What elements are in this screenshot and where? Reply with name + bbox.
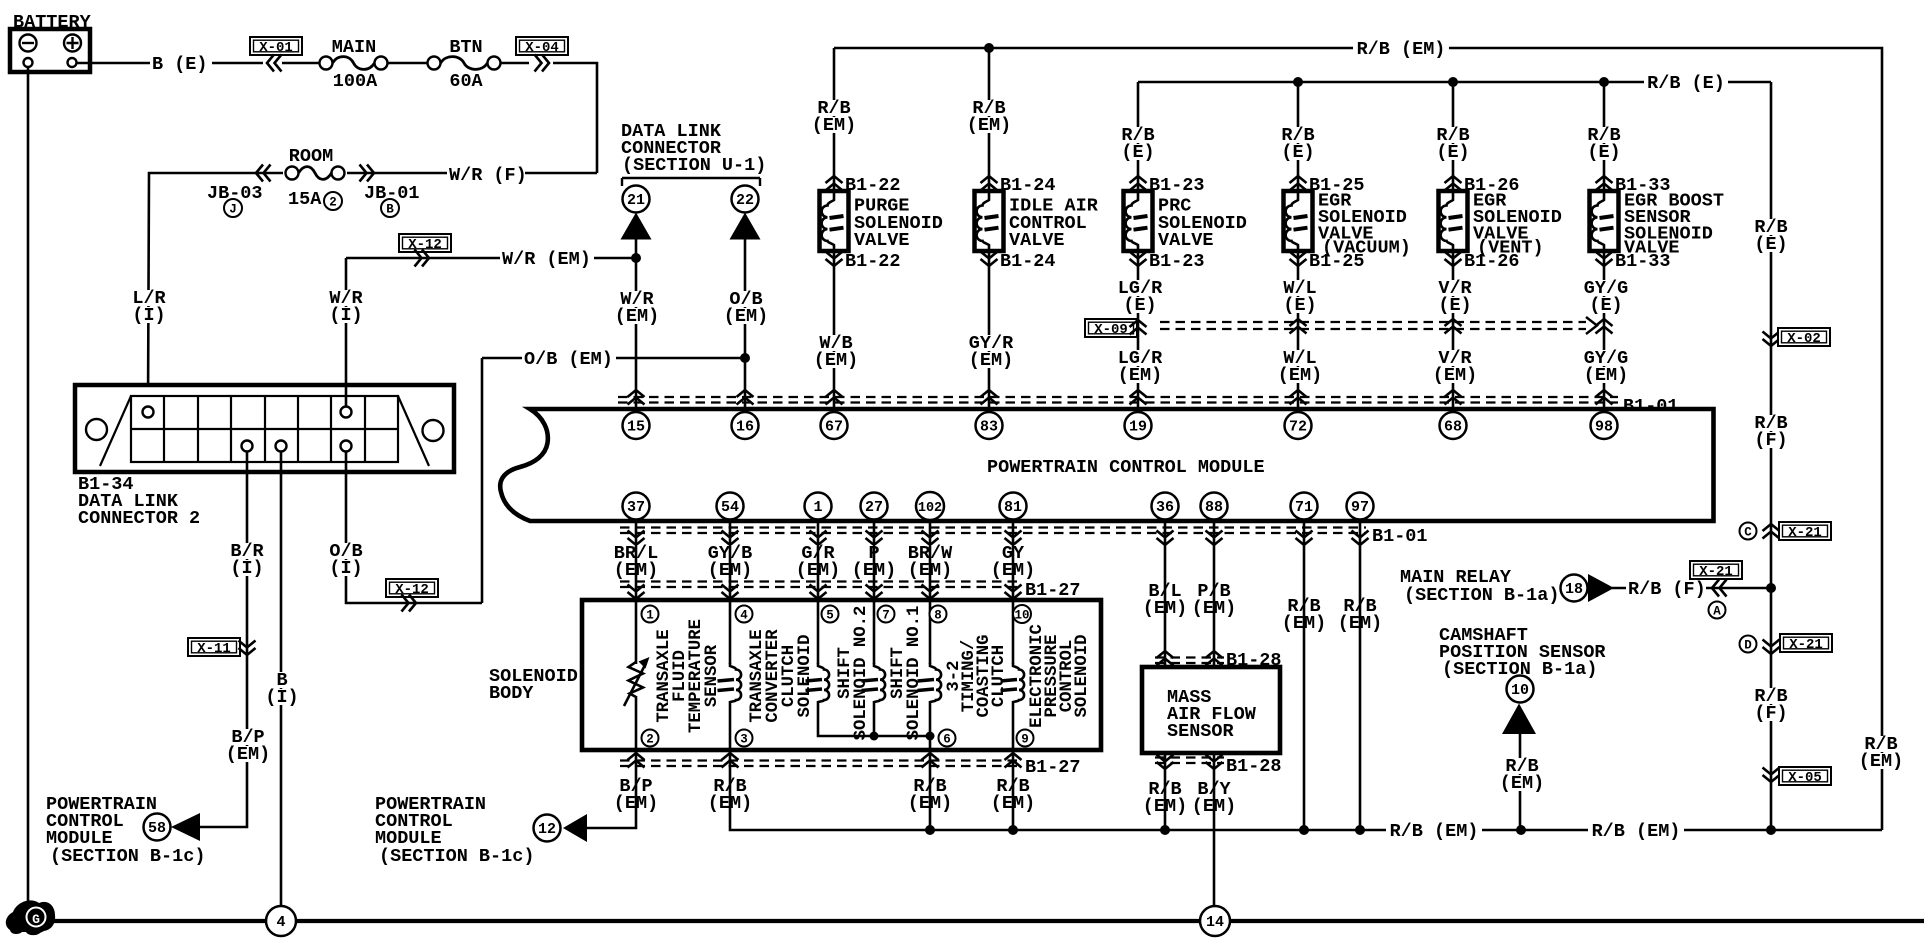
junction bus x1304	[1299, 825, 1309, 835]
svg-text:(I): (I)	[132, 305, 165, 326]
terminal 2	[324, 192, 342, 210]
terminal 58	[144, 814, 171, 841]
wire L/R (I) down to data link connector 2	[148, 173, 150, 407]
terminal 10	[1507, 676, 1534, 703]
chevron X-09 V/R	[1445, 319, 1462, 334]
label W/R (F)	[447, 167, 525, 183]
svg-text:18: 18	[1565, 581, 1583, 598]
chevron B1-01 pin 27	[866, 531, 883, 546]
chevron B1-01 pin 97	[1352, 531, 1369, 546]
connector X-02	[1778, 328, 1830, 347]
svg-text:SOLENOID NO.1: SOLENOID NO.1	[905, 606, 924, 741]
label R/B (EM) far right	[1861, 736, 1901, 752]
svg-text:(EM): (EM)	[1859, 751, 1903, 772]
label L/R (I)	[129, 290, 169, 306]
svg-text:B1-26: B1-26	[1464, 251, 1520, 272]
connector X-01	[250, 37, 302, 56]
chevron B1-01 pin 71	[1296, 531, 1313, 546]
connector X-04	[516, 37, 568, 56]
svg-text:2: 2	[329, 196, 337, 210]
svg-text:(I): (I)	[230, 558, 263, 579]
chevron JB-01 right	[360, 165, 375, 182]
svg-text:27: 27	[865, 499, 883, 516]
chevron X-02	[1763, 332, 1780, 347]
chevron JB-03 left	[256, 165, 271, 182]
svg-text:BODY: BODY	[489, 683, 534, 704]
label GY/G (E) wire	[1580, 280, 1632, 296]
chevron B1-22 top	[826, 176, 843, 191]
harness dashes B1-01 upper	[618, 396, 1618, 398]
label B (I)	[269, 672, 295, 688]
wire B/P to terminal 12	[587, 750, 636, 828]
pin 88 PCM bottom	[1201, 493, 1228, 520]
svg-text:(EM): (EM)	[1278, 365, 1322, 386]
wire R/B (E)-(F) right vertical	[1770, 82, 1773, 830]
svg-text:10: 10	[1014, 609, 1029, 623]
label GY/R (EM) wire	[965, 335, 1017, 351]
svg-text:G: G	[32, 912, 40, 927]
svg-text:(SECTION B-1c): (SECTION B-1c)	[379, 846, 534, 867]
svg-text:(E): (E)	[1754, 234, 1787, 255]
wire R/B (F) main relay	[1612, 587, 1771, 590]
pin 1 PCM bottom	[805, 493, 832, 520]
connector B1-34 data link connector 2	[75, 385, 454, 472]
wire fuse MAIN to fuse BTN	[388, 62, 428, 65]
svg-text:(F): (F)	[1754, 430, 1787, 451]
svg-text:4: 4	[740, 609, 748, 623]
pin 27 PCM bottom	[861, 493, 888, 520]
label R/B (EM) wire IDLE-AIR	[969, 100, 1009, 116]
pin 81 PCM bottom	[1000, 493, 1027, 520]
wire pin 36 to mass air flow sensor	[1164, 520, 1167, 668]
label GY/B (EM) wire 730	[705, 545, 756, 561]
svg-text:(SECTION U-1): (SECTION U-1)	[622, 155, 766, 176]
svg-text:60A: 60A	[449, 71, 483, 92]
svg-text:MAIN: MAIN	[332, 37, 376, 58]
chevron B1-01 pin 1	[810, 531, 827, 546]
svg-text:SOLENOID: SOLENOID	[1073, 635, 1092, 718]
chevron X-09 LG/R	[1130, 320, 1147, 335]
pin 71 PCM bottom	[1291, 493, 1318, 520]
chevron B1-01 wire 1453	[1445, 390, 1462, 405]
chevron B1-01 pin 36	[1157, 531, 1174, 546]
solenoid valve B1-22 PURGE	[820, 191, 849, 251]
chevron B1-01 wire 636	[628, 390, 645, 405]
label R/B (EM) wire 102	[910, 778, 950, 794]
pin 54 PCM bottom	[717, 493, 744, 520]
connector X-21 C	[1779, 522, 1831, 541]
svg-text:(I): (I)	[265, 687, 298, 708]
svg-text:67: 67	[825, 419, 843, 436]
harness dashes X-09	[1160, 321, 1586, 323]
svg-text:(SECTION B-1c): (SECTION B-1c)	[50, 846, 205, 867]
coil transaxle converter clutch solenoid	[718, 663, 742, 702]
harness dashes B1-01 lower	[620, 526, 1366, 528]
svg-text:1: 1	[813, 499, 822, 516]
svg-text:CLUTCH: CLUTCH	[990, 645, 1009, 707]
terminal 22	[732, 186, 759, 213]
wire R/B 102 to bus	[929, 750, 932, 830]
chevron B1-27 upper x874	[866, 585, 883, 600]
svg-text:R/B (EM): R/B (EM)	[1390, 821, 1479, 842]
wire terminal 21 to PCM pin 15	[635, 239, 638, 412]
svg-text:(EM): (EM)	[1584, 365, 1628, 386]
arrow terminal 22	[730, 213, 761, 240]
svg-text:B (E): B (E)	[152, 54, 208, 75]
label R/B (EM) wire 54	[710, 778, 750, 794]
wire battery negative down to ground	[27, 67, 30, 908]
terminal C	[1740, 523, 1757, 540]
svg-text:(I): (I)	[329, 305, 362, 326]
label R/B (EM) bus left	[1386, 824, 1482, 839]
chevron B1-22 bottom	[826, 252, 843, 267]
svg-text:72: 72	[1289, 419, 1307, 436]
svg-text:(F): (F)	[1754, 703, 1787, 724]
svg-text:81: 81	[1004, 499, 1022, 516]
chevron B1-28 upper 36	[1157, 651, 1174, 666]
svg-text:X-04: X-04	[525, 40, 559, 56]
svg-text:BATTERY: BATTERY	[13, 12, 92, 33]
junction EGR boost	[1599, 77, 1609, 87]
pin 10 solenoid body	[1013, 605, 1031, 623]
wire pin to solenoid body x1013	[1012, 520, 1015, 601]
svg-text:98: 98	[1595, 419, 1613, 436]
terminal O/B pin	[341, 441, 352, 452]
wire X-01 to fuse MAIN	[282, 62, 320, 65]
connector X-11	[188, 638, 240, 657]
pin 83 PCM top	[976, 412, 1003, 439]
svg-text:(EM): (EM)	[814, 350, 858, 371]
label R/B (EM) bus right	[1588, 824, 1684, 839]
svg-text:POWERTRAIN CONTROL MODULE: POWERTRAIN CONTROL MODULE	[987, 457, 1265, 478]
svg-text:R/B (EM): R/B (EM)	[1357, 39, 1446, 60]
connector X-09	[1085, 319, 1137, 338]
label R/B (E) wire EGR	[1278, 127, 1318, 143]
chevron X-12 lower	[402, 595, 417, 612]
pin 8 solenoid body	[930, 606, 947, 623]
solenoid valve B1-25 EGR	[1284, 191, 1313, 251]
junction main relay to R/B (F)	[1766, 583, 1776, 593]
solenoid valve B1-26 EGR	[1439, 191, 1468, 251]
wire O/B (I) down from connector	[346, 452, 482, 604]
svg-text:R/B (E): R/B (E)	[1647, 73, 1725, 94]
label R/B (EM) wire 81	[993, 778, 1033, 794]
wire R/B (EM) top bus	[834, 48, 1882, 830]
label W/B (EM) wire	[810, 335, 862, 351]
coil shift solenoid no.2	[806, 663, 830, 702]
wire fuse BTN to X-04	[501, 62, 530, 65]
svg-text:8: 8	[934, 609, 942, 623]
terminal 21	[623, 186, 650, 213]
label B/Y (EM) maf	[1194, 781, 1234, 797]
svg-text:(E): (E)	[1281, 142, 1314, 163]
svg-text:J: J	[229, 203, 237, 217]
pin 4 solenoid body	[736, 606, 753, 623]
svg-text:X-21: X-21	[1789, 637, 1823, 653]
pin 72 PCM top	[1285, 412, 1312, 439]
wire B (I) down to ground node 4	[280, 452, 283, 907]
chevron B1-28 lower 88	[1206, 755, 1223, 770]
svg-text:B1-33: B1-33	[1615, 251, 1671, 272]
wire shift solenoid no.1	[873, 600, 876, 664]
svg-text:(EM): (EM)	[969, 350, 1013, 371]
svg-text:B1-23: B1-23	[1149, 251, 1205, 272]
svg-text:SOLENOID: SOLENOID	[796, 635, 815, 718]
pin 97 PCM bottom	[1347, 493, 1374, 520]
svg-text:X-21: X-21	[1788, 525, 1822, 541]
label R/B (EM) camshaft	[1502, 758, 1542, 774]
label W/R (I)	[326, 290, 366, 306]
connector X-12 upper	[399, 234, 451, 253]
chevron B1-23 top	[1130, 176, 1147, 191]
wire X-04 to corner, down to ROOM feed	[553, 63, 597, 173]
chevron B1-27 upper x636	[628, 585, 645, 600]
bracket	[622, 178, 760, 186]
label B/P (EM)	[616, 778, 656, 794]
thermistor transaxle fluid temperature sensor	[629, 662, 644, 697]
wire R/B pin 97 to bus	[1359, 520, 1362, 831]
svg-text:(E): (E)	[1123, 295, 1156, 316]
svg-text:(E): (E)	[1438, 295, 1471, 316]
wire B/Y maf to ground node 14	[1213, 753, 1216, 906]
wire 1604 feed down to PCM	[1603, 82, 1606, 192]
svg-text:14: 14	[1206, 914, 1224, 931]
solenoid valve B1-24 IDLE-AIR	[975, 191, 1004, 251]
svg-text:VALVE: VALVE	[1009, 230, 1065, 251]
coil 3-2 timing coasting clutch	[918, 663, 942, 702]
mass air flow sensor box	[1142, 667, 1280, 753]
svg-text:R/B (EM): R/B (EM)	[1592, 821, 1681, 842]
connector X-21 A	[1690, 561, 1742, 580]
terminal B pin	[276, 441, 287, 452]
battery	[10, 29, 90, 72]
solenoid valve B1-23 PRC	[1124, 191, 1153, 251]
svg-text:X-12: X-12	[408, 237, 442, 253]
label W/R (EM) on wire	[500, 252, 594, 267]
chevron B1-27 lower x1013	[1005, 753, 1022, 768]
pin 67 PCM top	[821, 412, 848, 439]
terminal D	[1740, 636, 1757, 653]
svg-text:15A: 15A	[288, 189, 322, 210]
chevron X-05	[1763, 768, 1780, 783]
wire 834 feed down to PCM	[833, 48, 836, 192]
label P (EM) wire 874	[865, 545, 882, 561]
svg-text:37: 37	[627, 499, 645, 516]
terminal B	[381, 199, 399, 217]
label B/P (EM) left branch	[228, 729, 268, 745]
chevron B1-01 wire 834	[826, 390, 843, 405]
svg-text:D: D	[1744, 639, 1752, 653]
chevron B1-01 wire 989	[981, 390, 998, 405]
svg-text:X-02: X-02	[1787, 331, 1821, 347]
chevron B1-27 upper x930	[922, 585, 939, 600]
svg-text:4: 4	[276, 914, 285, 931]
connector X-21 D	[1780, 634, 1832, 653]
wire 1453 feed down to PCM	[1452, 82, 1455, 192]
fuse BTN 60A	[428, 57, 441, 70]
wire W/R (I) up from connector	[345, 258, 348, 407]
svg-text:5: 5	[826, 609, 834, 623]
svg-text:83: 83	[980, 419, 998, 436]
svg-text:(E): (E)	[1587, 142, 1620, 163]
label R/B (E) wire EGR	[1433, 127, 1473, 143]
svg-text:6: 6	[943, 733, 951, 747]
chevron B1-01 pin 37	[628, 531, 645, 546]
chevron B1-25 top	[1290, 176, 1307, 191]
svg-text:VALVE: VALVE	[1158, 230, 1214, 251]
chevron X-11	[239, 641, 256, 656]
svg-text:(EM): (EM)	[1433, 365, 1477, 386]
svg-text:3: 3	[740, 733, 748, 747]
terminal B/R pin	[242, 441, 253, 452]
svg-text:SENSOR: SENSOR	[1167, 721, 1235, 742]
label W/L (EM) wire	[1274, 350, 1326, 366]
solenoid valve B1-33 EGR-BOOST	[1590, 191, 1619, 251]
svg-text:A: A	[1713, 605, 1721, 619]
label R/B (EM) top	[1353, 42, 1449, 57]
label R/B (EM) maf	[1145, 781, 1185, 797]
wire B/R (I) down from connector	[200, 452, 247, 828]
wire electronic pressure control solenoid	[1012, 600, 1015, 664]
arrow camshaft position sensor	[1502, 704, 1536, 735]
svg-text:88: 88	[1205, 499, 1223, 516]
chevron B1-01 pin 102	[922, 531, 939, 546]
label B (E)	[150, 57, 212, 72]
chevron X-09 GY/G	[1596, 319, 1613, 334]
svg-text:2: 2	[646, 733, 654, 747]
coil electronic pressure control solenoid	[1001, 663, 1025, 702]
wire R/B (EM) camshaft sensor to bus	[1519, 734, 1522, 830]
svg-text:9: 9	[1021, 733, 1029, 747]
chevron X-21 C	[1763, 524, 1780, 539]
chevron X-21 D	[1763, 640, 1780, 655]
svg-text:36: 36	[1156, 499, 1174, 516]
wire 989 feed down to PCM	[988, 48, 991, 192]
chevron B1-27 upper x818	[810, 585, 827, 600]
svg-text:SENSOR: SENSOR	[703, 644, 722, 707]
svg-text:W/R (EM): W/R (EM)	[502, 249, 591, 270]
solenoid body box	[582, 600, 1101, 750]
svg-text:B1-28: B1-28	[1226, 756, 1282, 777]
svg-text:(EM): (EM)	[812, 115, 856, 136]
svg-text:B1-22: B1-22	[845, 251, 901, 272]
arrow to PCM terminal 12	[563, 814, 587, 842]
pin 3 solenoid body	[736, 730, 753, 747]
svg-text:B1-01: B1-01	[1623, 396, 1679, 417]
wire R/B bus bottom	[730, 750, 1882, 830]
wire R/B 81 to bus	[1012, 750, 1015, 830]
pin 19 PCM top	[1125, 412, 1152, 439]
chevron B1-01 pin 81	[1005, 531, 1022, 546]
chevron B1-01 wire 1298	[1290, 390, 1307, 405]
svg-text:X-21: X-21	[1699, 564, 1733, 580]
svg-text:(E): (E)	[1121, 142, 1154, 163]
pin 15 PCM top	[623, 412, 650, 439]
chevron B1-01 wire 1138	[1130, 390, 1147, 405]
ground G body ground	[6, 900, 55, 935]
wire W/R (F) from corner to ROOM fuse	[150, 172, 597, 175]
svg-text:54: 54	[721, 499, 739, 516]
svg-text:(EM): (EM)	[1118, 365, 1162, 386]
svg-text:B1-24: B1-24	[1000, 175, 1056, 196]
chevron B1-27 lower x730	[722, 753, 739, 768]
svg-text:B1-23: B1-23	[1149, 175, 1205, 196]
svg-text:X-11: X-11	[197, 641, 231, 657]
label LG/R (E) wire	[1114, 280, 1166, 296]
pin 98 PCM top	[1591, 412, 1618, 439]
label O/B (EM) on wire	[522, 352, 616, 367]
arrow terminal 21	[621, 213, 652, 240]
pin 9 solenoid body	[1017, 730, 1034, 747]
pin 16 PCM top	[732, 412, 759, 439]
fuse MAIN 100A	[320, 57, 333, 70]
svg-text:VALVE: VALVE	[854, 230, 910, 251]
label G/R (EM) wire 818	[798, 545, 838, 561]
chevron B1-28 lower 36	[1157, 755, 1174, 770]
label W/R (EM) wire 21	[617, 291, 657, 307]
chevron B1-33 top	[1596, 176, 1613, 191]
terminal 12	[534, 815, 561, 842]
arrow main relay	[1588, 574, 1614, 602]
svg-text:68: 68	[1444, 419, 1462, 436]
chevron X-21 A	[1712, 580, 1727, 597]
chevron B1-27 lower x930	[922, 753, 939, 768]
svg-text:(E): (E)	[1283, 295, 1316, 316]
junction EGR vent	[1448, 77, 1458, 87]
svg-text:10: 10	[1511, 682, 1529, 699]
wire O/B up to O/B (EM) row	[481, 358, 484, 603]
junction node W/R-EM	[631, 253, 641, 263]
svg-text:12: 12	[538, 821, 556, 838]
wire transaxle converter clutch solenoid	[729, 600, 732, 664]
harness dashes B1-27 upper	[620, 580, 1020, 582]
svg-text:100A: 100A	[333, 71, 378, 92]
svg-text:B1-01: B1-01	[1372, 526, 1428, 547]
svg-text:ROOM: ROOM	[289, 146, 333, 167]
wire shift solenoid no.2	[817, 600, 820, 664]
harness dashes B1-28 upper	[1155, 656, 1224, 658]
svg-text:102: 102	[918, 501, 942, 516]
junction idle air control	[984, 43, 994, 53]
svg-text:15: 15	[627, 419, 645, 436]
svg-text:(EM): (EM)	[615, 306, 659, 327]
wire pin to solenoid body x636	[635, 520, 638, 601]
svg-text:(SECTION B-1a): (SECTION B-1a)	[1404, 585, 1559, 606]
label R/B (E) top	[1644, 76, 1728, 91]
chevron B1-23 bottom	[1130, 252, 1147, 267]
pin 102 PCM bottom	[916, 492, 944, 520]
label R/B (E) vertical	[1751, 219, 1791, 235]
label R/B (EM) wire 71	[1284, 598, 1324, 614]
harness dashes B1-28 lower	[1155, 756, 1224, 758]
junction node O/B-EM	[740, 353, 750, 363]
chevron B1-27 upper x730	[722, 585, 739, 600]
svg-text:(EM): (EM)	[226, 744, 270, 765]
junction EGR vacuum	[1293, 77, 1303, 87]
terminal L/R pin	[143, 407, 154, 418]
wire terminal 22 to PCM pin 16	[744, 239, 747, 412]
ground node 14	[1200, 906, 1230, 936]
pin 68 PCM top	[1440, 412, 1467, 439]
svg-text:22: 22	[736, 192, 754, 209]
wire 1298 feed down to PCM	[1297, 82, 1300, 192]
svg-text:(I): (I)	[329, 558, 362, 579]
svg-text:B1-22: B1-22	[845, 175, 901, 196]
svg-text:O/B (EM): O/B (EM)	[524, 349, 613, 370]
label V/R (EM) wire	[1429, 350, 1481, 366]
chevron B1-27 lower x636	[628, 753, 645, 768]
label GY (EM) wire 1013	[999, 545, 1027, 561]
